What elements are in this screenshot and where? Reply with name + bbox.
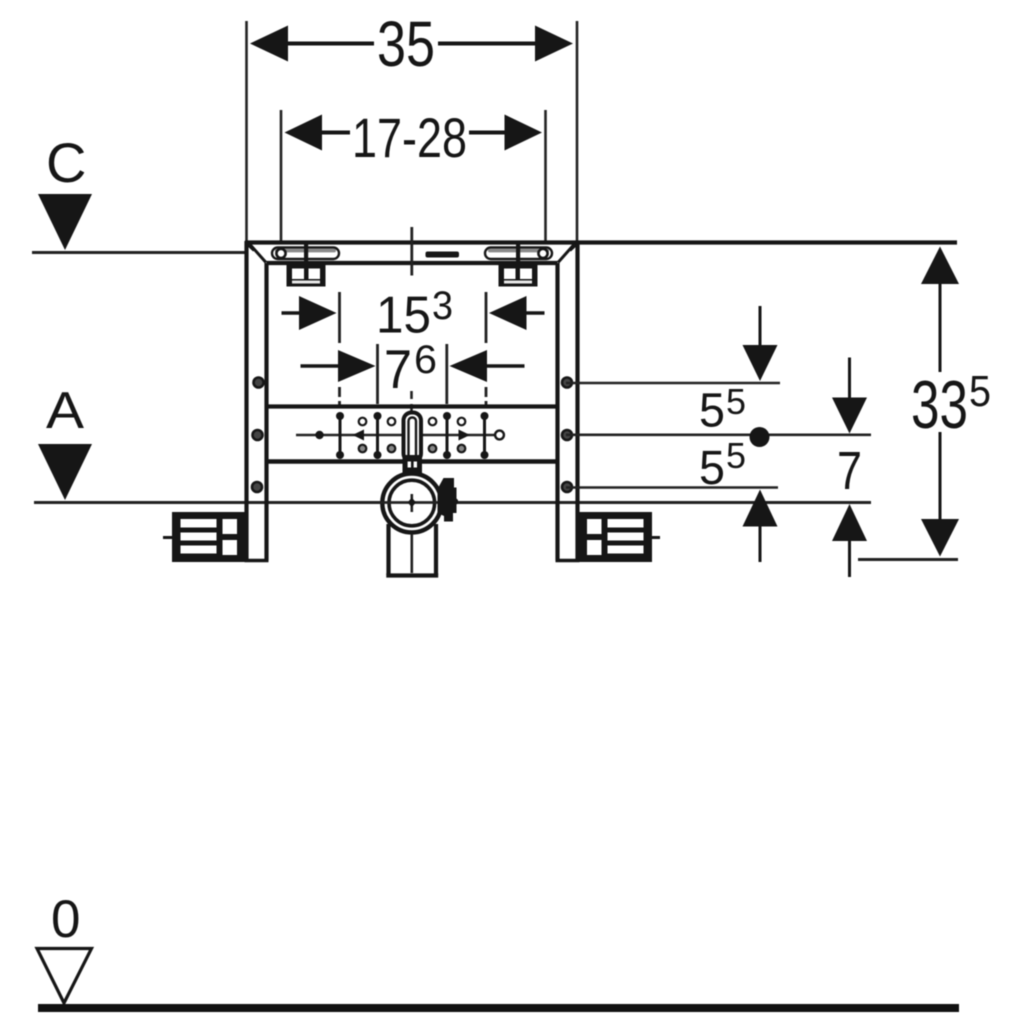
svg-text:5: 5 (726, 435, 746, 476)
dim 55 lower arrow up (743, 490, 778, 563)
slot right (485, 248, 552, 260)
dim 7 arrow down (832, 358, 867, 434)
level line A (34, 501, 871, 504)
fixing block left (287, 265, 326, 287)
small hole d (388, 445, 396, 453)
svg-text:15: 15 (376, 287, 431, 345)
small hole f (429, 445, 437, 453)
label 55 lower (699, 435, 746, 495)
stud line 4 (481, 412, 489, 459)
svg-text:17-28: 17-28 (352, 106, 467, 169)
leg hole left 3 (252, 482, 262, 492)
small hole b (359, 445, 367, 453)
leg hole left 1 (254, 378, 264, 388)
frame left leg (245, 241, 269, 561)
foot right (579, 512, 660, 562)
datum arrow 0 open (37, 949, 92, 1004)
leg hole left 2 (253, 430, 263, 440)
bolt left (304, 244, 308, 287)
outlet box (386, 524, 438, 576)
leg hole right 2 (562, 430, 572, 440)
svg-text:5: 5 (699, 385, 725, 438)
bolt right (516, 244, 520, 287)
center slot dash (426, 252, 460, 258)
side line 55 lower (566, 486, 778, 489)
slot left (272, 248, 339, 260)
foot level line right (858, 558, 958, 561)
dimension 17-28 (281, 106, 546, 241)
dimension 35 (247, 8, 578, 241)
small hole h (458, 445, 466, 453)
side dot (750, 427, 770, 447)
datum arrow A (38, 444, 92, 500)
crossbar rail (267, 407, 558, 462)
label 55 upper (699, 381, 746, 438)
hole marker arrow right (459, 430, 471, 441)
svg-text:5: 5 (969, 367, 991, 416)
stud line 1 (336, 412, 344, 459)
side line 55 upper (566, 382, 780, 385)
svg-text:35: 35 (377, 8, 435, 80)
hole dot left (315, 431, 323, 439)
svg-text:C: C (46, 131, 86, 194)
foot left (163, 512, 245, 562)
svg-text:3: 3 (432, 284, 453, 328)
small hole c (388, 418, 396, 426)
svg-text:7: 7 (384, 338, 412, 400)
svg-text:33: 33 (911, 367, 968, 443)
mounting holes centerline (296, 434, 505, 437)
drain trap circle (370, 474, 454, 533)
stud line 2 (374, 412, 382, 459)
dimension 15-3 (282, 284, 545, 405)
leg hole right 3 (562, 482, 572, 492)
side line 55 mid (566, 433, 871, 436)
floor baseline (38, 1004, 959, 1012)
small hole g (458, 418, 466, 426)
svg-text:7: 7 (837, 441, 862, 501)
small hole a (359, 418, 367, 426)
flush pipe (403, 413, 423, 478)
frame top rail (245, 243, 957, 264)
dim 335 (911, 247, 991, 557)
fixing block right (499, 265, 538, 287)
hole marker arrow left (353, 430, 365, 441)
drain clamp (438, 478, 459, 522)
svg-text:0: 0 (51, 890, 80, 949)
svg-text:5: 5 (699, 442, 725, 495)
svg-text:A: A (46, 382, 84, 440)
svg-text:6: 6 (414, 338, 437, 382)
level line C (32, 251, 246, 254)
dimension 7-6 (301, 338, 525, 404)
small hole e (429, 418, 437, 426)
dim 7 arrow up (832, 504, 867, 577)
datum arrow C (38, 194, 92, 250)
centerline tick top (410, 227, 413, 276)
svg-text:5: 5 (726, 381, 746, 422)
stud line 3 (443, 412, 451, 459)
frame right leg (556, 241, 580, 561)
hole circle right end (495, 431, 504, 440)
centerline tick middle (410, 391, 413, 412)
leg hole right 1 (562, 378, 572, 388)
dim 55 upper arrow down (743, 306, 778, 381)
